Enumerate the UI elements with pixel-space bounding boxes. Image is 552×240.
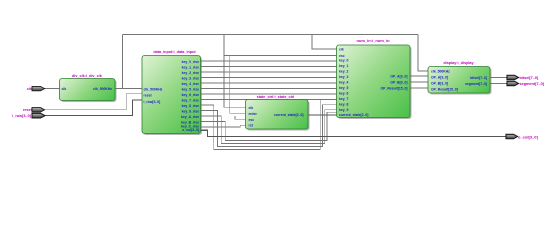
svg-text:reset: reset xyxy=(144,94,153,98)
wire clk drop to num_in clk xyxy=(312,35,337,50)
block U3 state_ctrl:i_state_ctrl xyxy=(246,95,310,131)
svg-text:key_0: key_0 xyxy=(339,58,349,62)
svg-text:segment[7..0]: segment[7..0] xyxy=(520,82,545,86)
svg-text:o_col[3..0]: o_col[3..0] xyxy=(518,134,538,139)
svg-text:clk: clk xyxy=(62,87,67,91)
wire clk drop to state_ctrl clk xyxy=(224,35,246,108)
svg-text:clk_500KHz: clk_500KHz xyxy=(93,87,112,91)
svg-text:key_6_rise: key_6_rise xyxy=(182,93,199,97)
svg-text:current_state[2..0]: current_state[2..0] xyxy=(274,113,303,117)
wire bitsel to port xyxy=(490,77,507,79)
svg-text:num_in:i_num_in: num_in:i_num_in xyxy=(356,38,390,43)
bus wire o_col data_input to output port xyxy=(201,130,507,136)
svg-text:clk_500KHz: clk_500KHz xyxy=(144,87,163,91)
input port clk xyxy=(27,86,45,91)
svg-text:OP_A[3..0]: OP_A[3..0] xyxy=(390,74,407,78)
wire key_0 xyxy=(201,60,337,62)
output port o_col[3..0] xyxy=(506,134,538,139)
input port reset xyxy=(23,108,45,113)
svg-text:key_8: key_8 xyxy=(339,102,349,106)
wire key_7 partial xyxy=(201,99,323,101)
wire key_C to state_ctrl rst xyxy=(201,125,246,127)
svg-text:data_input:i_data_input: data_input:i_data_input xyxy=(153,50,196,54)
wire segment to port xyxy=(490,83,507,85)
svg-text:i_row[3..0]: i_row[3..0] xyxy=(143,100,160,104)
bus wire i_row port to data_input xyxy=(45,100,142,116)
svg-text:reset: reset xyxy=(23,108,33,112)
wire key_4 xyxy=(201,82,337,84)
block U4 num_in:i_num_in xyxy=(337,38,412,119)
svg-text:OP_A[3..0]: OP_A[3..0] xyxy=(431,76,448,80)
svg-text:esc: esc xyxy=(249,118,255,122)
svg-text:key_4_rise: key_4_rise xyxy=(182,82,199,86)
svg-text:clk: clk xyxy=(249,106,254,110)
wire key_5 xyxy=(201,88,337,90)
wire clk_500KHz riser x=122.5 xyxy=(122,35,124,89)
svg-text:OP_Result[15..0]: OP_Result[15..0] xyxy=(381,86,408,90)
svg-text:key_7: key_7 xyxy=(339,97,349,101)
wire clk_500KHz top trunk xyxy=(123,34,419,36)
svg-text:OP_B[3..0]: OP_B[3..0] xyxy=(390,80,407,84)
svg-text:bitsel[7..0]: bitsel[7..0] xyxy=(470,76,487,80)
svg-text:bitsel[7..0]: bitsel[7..0] xyxy=(520,76,540,80)
svg-text:key_6: key_6 xyxy=(339,91,349,95)
svg-text:key_3_rise: key_3_rise xyxy=(182,76,199,80)
wire clk drop to display clk xyxy=(418,35,428,72)
svg-text:key_5: key_5 xyxy=(339,86,349,90)
wire clk_500KHz: div_clk to data_input xyxy=(115,88,142,90)
output port bitsel[7..0] xyxy=(507,75,539,80)
svg-text:key_1: key_1 xyxy=(339,64,349,68)
wire key_6 xyxy=(201,93,337,95)
svg-text:key_1_rise: key_1_rise xyxy=(182,65,199,69)
wire key_2 xyxy=(201,71,337,73)
svg-text:key_A_rise: key_A_rise xyxy=(181,115,199,119)
svg-text:div_clk:i_div_clk: div_clk:i_div_clk xyxy=(72,74,103,78)
svg-text:o_col[3..0]: o_col[3..0] xyxy=(182,128,199,132)
svg-text:clk_500KHz: clk_500KHz xyxy=(431,69,450,73)
wire reset port to data_input xyxy=(44,94,142,110)
svg-text:clk: clk xyxy=(339,47,344,51)
wire esc line to num_in esc xyxy=(224,55,337,57)
wire enter riser to state_ctrl enter xyxy=(230,56,246,114)
block U2 data_input:i_data_input xyxy=(142,50,202,135)
svg-text:key_5_rise: key_5_rise xyxy=(182,87,199,91)
block U5 display:i_display xyxy=(428,61,492,95)
svg-text:key_2: key_2 xyxy=(339,69,349,73)
wire esc hook to state_ctrl xyxy=(235,116,246,119)
svg-text:i_row[3..0]: i_row[3..0] xyxy=(12,114,32,118)
svg-text:OP_Result[15..0]: OP_Result[15..0] xyxy=(431,88,458,92)
wire key_3 xyxy=(201,77,337,79)
wire key_9 bottom loop xyxy=(201,105,337,147)
svg-text:key_0_rise: key_0_rise xyxy=(182,60,199,64)
block U1 div_clk:i_div_clk xyxy=(60,74,117,102)
wire key_B bottom loop xyxy=(201,112,337,140)
wire OP_Result to display xyxy=(410,87,428,89)
svg-text:state_ctrl:i_state_ctrl: state_ctrl:i_state_ctrl xyxy=(257,95,295,99)
svg-text:key_2_rise: key_2_rise xyxy=(182,71,199,75)
svg-text:display:i_display: display:i_display xyxy=(443,61,474,65)
svg-text:key_8_rise: key_8_rise xyxy=(182,104,199,108)
svg-text:key_4: key_4 xyxy=(339,80,349,84)
wire OP_A to display xyxy=(410,75,428,77)
svg-text:key_9_rise: key_9_rise xyxy=(182,109,199,113)
wire key_A bottom loop xyxy=(201,110,337,144)
svg-text:OP_B[3..0]: OP_B[3..0] xyxy=(431,82,448,86)
svg-text:segment[7..0]: segment[7..0] xyxy=(465,82,487,86)
svg-text:key_9: key_9 xyxy=(339,108,349,112)
input port i_row[3..0] xyxy=(12,113,45,118)
wire clk: input port to div_clk xyxy=(44,88,60,90)
bus wire current_state state_ctrl to num_in xyxy=(308,114,337,116)
svg-text:clk: clk xyxy=(27,87,33,91)
wire key_8 bottom loop xyxy=(201,100,337,150)
svg-text:enter: enter xyxy=(249,112,258,116)
svg-text:key_7_rise: key_7_rise xyxy=(182,98,199,102)
svg-text:esc: esc xyxy=(339,54,345,58)
svg-text:current_state[2..0]: current_state[2..0] xyxy=(339,113,368,117)
wire key_1 xyxy=(201,66,337,68)
output port segment[7..0] xyxy=(507,81,545,86)
wire OP_B to display xyxy=(410,81,428,83)
svg-text:key_3: key_3 xyxy=(339,75,349,79)
